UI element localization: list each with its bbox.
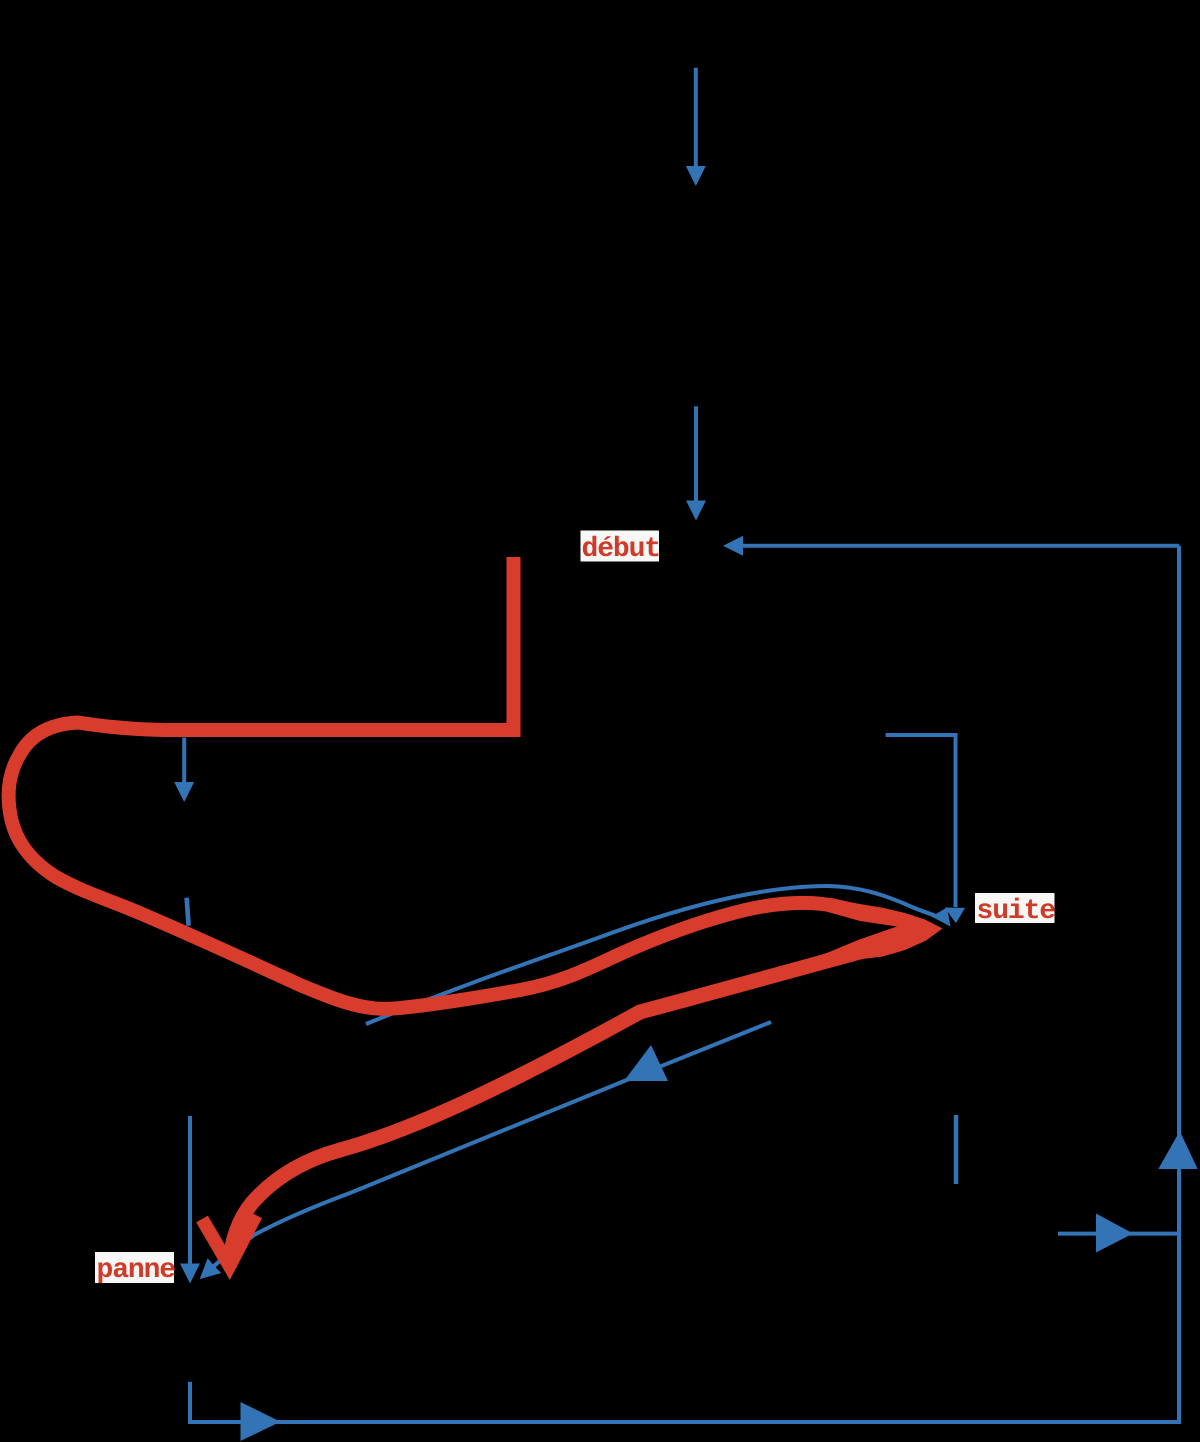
- svg-text:suite: suite: [977, 896, 1056, 927]
- svg-text:début: début: [582, 534, 661, 565]
- svg-text:panne: panne: [97, 1255, 176, 1286]
